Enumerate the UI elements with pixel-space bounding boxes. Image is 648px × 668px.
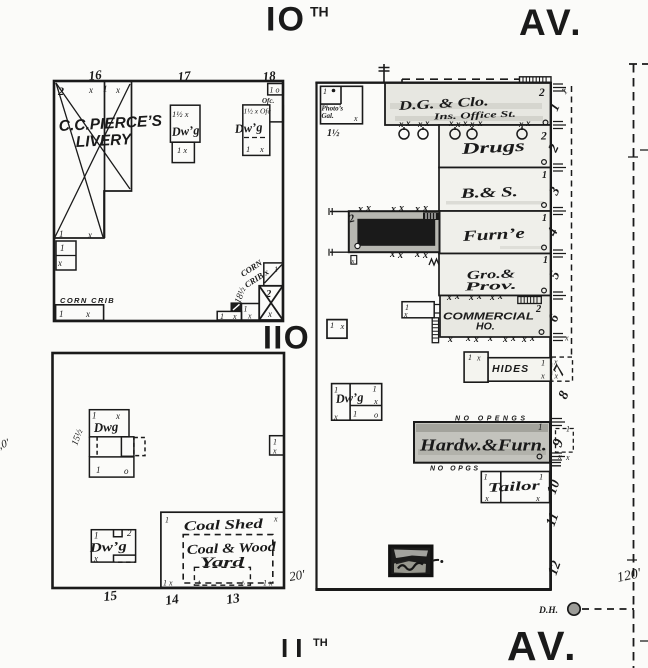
svg-text:x: x bbox=[389, 249, 395, 260]
dwelling lower lower-left block bbox=[91, 530, 135, 562]
corn crib upper box right bbox=[264, 263, 283, 286]
svg-text:HIDES: HIDES bbox=[492, 363, 529, 375]
svg-text:AV.: AV. bbox=[507, 623, 579, 668]
hides dashed extension lot 7 bbox=[552, 357, 573, 381]
coal shed bbox=[161, 512, 284, 587]
svg-text:x: x bbox=[462, 118, 468, 128]
svg-text:1: 1 bbox=[542, 213, 547, 224]
svg-text:o: o bbox=[124, 466, 129, 476]
svg-text:x: x bbox=[484, 493, 489, 503]
svg-text:IO: IO bbox=[266, 1, 306, 39]
city block right outline bbox=[315, 82, 551, 590]
svg-text:Dw’g: Dw’g bbox=[88, 538, 128, 555]
svg-text:1: 1 bbox=[484, 472, 488, 482]
svg-text:x: x bbox=[521, 335, 527, 345]
svg-text:x: x bbox=[272, 447, 277, 456]
svg-text:o: o bbox=[374, 410, 378, 420]
boots and shoes store bbox=[439, 168, 551, 212]
svg-text:x: x bbox=[468, 293, 474, 303]
drug store bbox=[439, 125, 551, 168]
svg-text:x: x bbox=[373, 396, 378, 406]
dwelling right block bbox=[332, 384, 382, 421]
svg-text:1: 1 bbox=[246, 144, 250, 154]
svg-text:1 x: 1 x bbox=[163, 579, 173, 588]
svg-text:1: 1 bbox=[59, 309, 64, 319]
svg-text:Tailor: Tailor bbox=[487, 477, 541, 495]
svg-text:x: x bbox=[353, 114, 358, 123]
svg-text:Gal.: Gal. bbox=[322, 112, 335, 120]
svg-text:Drugs: Drugs bbox=[460, 138, 525, 158]
svg-text:x: x bbox=[357, 204, 363, 215]
commercial house west annex bbox=[402, 302, 434, 318]
svg-text:1: 1 bbox=[542, 170, 547, 181]
svg-text:AV.: AV. bbox=[519, 2, 584, 43]
svg-text:20': 20' bbox=[288, 566, 306, 584]
zigzag mark warehouse corner bbox=[429, 259, 439, 265]
groceries and provisions store bbox=[439, 254, 551, 296]
tie lines west of warehouse bbox=[330, 212, 349, 253]
svg-text:Coal Shed: Coal Shed bbox=[184, 516, 264, 534]
svg-text:IIO: IIO bbox=[263, 320, 310, 356]
svg-text:1 x: 1 x bbox=[177, 145, 187, 155]
side stairway commercial house bbox=[432, 318, 438, 343]
dwelling lot 17 bbox=[170, 105, 200, 142]
svg-text:x: x bbox=[351, 258, 355, 265]
tailor shop bbox=[481, 472, 549, 503]
svg-text:2: 2 bbox=[57, 84, 64, 98]
svg-text:x: x bbox=[88, 85, 93, 95]
svg-text:x: x bbox=[473, 335, 479, 345]
svg-text:x: x bbox=[455, 119, 461, 129]
furniture store bbox=[439, 211, 551, 254]
svg-text:1: 1 bbox=[96, 465, 101, 475]
svg-text:x: x bbox=[397, 250, 403, 261]
svg-text:Hardw.&Furn.: Hardw.&Furn. bbox=[419, 436, 547, 455]
svg-text:1: 1 bbox=[468, 353, 472, 362]
svg-text:1: 1 bbox=[273, 438, 277, 447]
shed next to corn crib bbox=[242, 304, 260, 321]
window marks dry goods front bbox=[398, 118, 531, 129]
svg-text:x: x bbox=[448, 118, 454, 128]
blacksmith shop black building bbox=[390, 546, 432, 576]
svg-text:HO.: HO. bbox=[476, 321, 495, 333]
svg-text:Dwg: Dwg bbox=[92, 419, 119, 435]
inner dashed pen coal yard bbox=[194, 567, 250, 585]
svg-text:1: 1 bbox=[353, 409, 357, 419]
svg-text:1 x: 1 x bbox=[263, 579, 273, 588]
livery stable building with X bracing bbox=[54, 81, 132, 238]
svg-text:1: 1 bbox=[566, 425, 570, 434]
svg-text:2: 2 bbox=[127, 528, 132, 538]
svg-text:TH: TH bbox=[313, 637, 328, 649]
street boundary dashed corner top right bbox=[629, 63, 648, 65]
svg-text:1: 1 bbox=[274, 265, 278, 274]
svg-text:x: x bbox=[405, 118, 411, 128]
svg-text:Prov.: Prov. bbox=[465, 278, 517, 294]
warehouse black building bbox=[349, 211, 440, 252]
svg-text:13: 13 bbox=[225, 590, 241, 607]
svg-text:1: 1 bbox=[373, 384, 377, 394]
svg-text:Ofc.: Ofc. bbox=[262, 97, 274, 105]
dry goods and clothing store bbox=[385, 83, 551, 125]
svg-text:x: x bbox=[87, 230, 92, 240]
firewall hash marks east edge bbox=[552, 84, 566, 466]
svg-text:II: II bbox=[281, 633, 309, 663]
shed south of livery bbox=[56, 241, 76, 270]
utility pole symbol bbox=[379, 64, 390, 82]
svg-text:Dw’g: Dw’g bbox=[334, 390, 364, 406]
svg-text:x: x bbox=[529, 334, 535, 344]
svg-text:x: x bbox=[535, 493, 540, 503]
svg-text:1½ x Ofc: 1½ x Ofc bbox=[244, 107, 272, 116]
svg-text:1: 1 bbox=[543, 255, 548, 266]
low shed bottom right bbox=[217, 311, 241, 320]
svg-text:x: x bbox=[340, 321, 345, 331]
svg-text:x: x bbox=[540, 371, 545, 381]
svg-text:x: x bbox=[247, 312, 252, 321]
svg-text:x: x bbox=[390, 204, 396, 215]
svg-text:x: x bbox=[446, 293, 452, 303]
svg-text:17: 17 bbox=[177, 68, 192, 84]
svg-text:x: x bbox=[424, 118, 430, 128]
corn crib building left bbox=[56, 305, 104, 321]
svg-text:1: 1 bbox=[244, 305, 248, 314]
svg-text:2: 2 bbox=[540, 131, 547, 143]
svg-text:x: x bbox=[57, 258, 62, 268]
svg-text:x: x bbox=[565, 453, 570, 462]
corn crib X building right bbox=[259, 286, 283, 320]
svg-text:x: x bbox=[398, 203, 404, 214]
svg-text:1½ x: 1½ x bbox=[172, 109, 189, 119]
svg-text:x: x bbox=[510, 334, 516, 344]
svg-text:NO OPGS: NO OPGS bbox=[430, 466, 480, 473]
svg-text:x: x bbox=[273, 515, 278, 524]
story and opening marks east stores bbox=[542, 170, 548, 266]
svg-text:2: 2 bbox=[538, 87, 545, 99]
svg-text:x: x bbox=[365, 203, 371, 214]
svg-text:2: 2 bbox=[265, 289, 272, 300]
svg-text:1: 1 bbox=[539, 472, 543, 482]
svg-text:x: x bbox=[417, 119, 423, 129]
coal and wood yard dashed enclosure bbox=[183, 535, 273, 583]
hides warehouse bbox=[464, 352, 550, 382]
svg-text:x: x bbox=[267, 309, 272, 319]
svg-text:x: x bbox=[497, 292, 503, 302]
svg-text:1: 1 bbox=[59, 229, 64, 239]
lot boundary dashed line east of block bbox=[571, 86, 573, 356]
tick marks on right street boundary bbox=[627, 150, 648, 641]
svg-text:1: 1 bbox=[197, 579, 201, 588]
svg-text:18: 18 bbox=[262, 68, 277, 84]
small black shed bbox=[231, 303, 242, 312]
svg-text:Dw’g: Dw’g bbox=[170, 123, 200, 139]
svg-text:B.& S.: B.& S. bbox=[459, 185, 518, 202]
svg-text:x: x bbox=[564, 334, 569, 343]
svg-text:x: x bbox=[414, 204, 420, 215]
svg-text:CORN CRIB: CORN CRIB bbox=[60, 296, 115, 305]
svg-text:x: x bbox=[414, 249, 420, 260]
svg-text:x: x bbox=[518, 119, 524, 129]
awning dashed line over sidewalk bbox=[402, 79, 519, 82]
svg-text:1: 1 bbox=[165, 516, 169, 525]
svg-text:x: x bbox=[333, 412, 338, 422]
svg-text:x: x bbox=[476, 292, 482, 302]
window marks warehouse bbox=[357, 203, 428, 261]
small shed south of warehouse bbox=[351, 256, 357, 265]
svg-text:x: x bbox=[454, 292, 460, 302]
svg-text:2: 2 bbox=[535, 304, 542, 315]
hardware and furniture store bbox=[414, 422, 550, 463]
city block lower-left outline bbox=[53, 353, 285, 588]
svg-text:1: 1 bbox=[220, 312, 224, 321]
svg-text:x: x bbox=[85, 309, 90, 319]
svg-text:LIVERY: LIVERY bbox=[75, 131, 133, 151]
commercial house hotel bbox=[440, 296, 551, 338]
svg-text:1: 1 bbox=[60, 243, 65, 253]
porch with posts top right bbox=[520, 77, 552, 84]
svg-text:x: x bbox=[447, 335, 453, 345]
svg-text:1 o: 1 o bbox=[270, 86, 280, 95]
svg-text:D.H.: D.H. bbox=[538, 606, 558, 616]
svg-text:1: 1 bbox=[538, 422, 543, 432]
svg-text:x: x bbox=[525, 118, 531, 128]
svg-text:x: x bbox=[489, 293, 495, 303]
svg-text:x: x bbox=[232, 312, 237, 321]
svg-text:1½: 1½ bbox=[327, 128, 340, 139]
svg-text:x: x bbox=[422, 203, 428, 214]
svg-text:x: x bbox=[403, 310, 408, 319]
window marks commercial house top wall bbox=[446, 292, 503, 303]
svg-text:x: x bbox=[398, 119, 404, 129]
svg-text:x: x bbox=[465, 334, 471, 344]
window marks commercial house bottom wall bbox=[447, 334, 535, 345]
small shed east edge lower-left block bbox=[270, 436, 284, 455]
svg-text:1: 1 bbox=[541, 358, 545, 368]
stairway commercial house bbox=[518, 297, 542, 304]
svg-text:x: x bbox=[259, 144, 264, 154]
svg-text:x: x bbox=[477, 118, 483, 128]
lot 9 dashed box bbox=[556, 429, 574, 453]
svg-text:1: 1 bbox=[330, 320, 334, 330]
svg-text:Furn’e: Furn’e bbox=[461, 226, 526, 245]
photograph gallery building bbox=[321, 86, 363, 124]
city block upper-left outline bbox=[54, 81, 283, 321]
svg-text:x: x bbox=[422, 250, 428, 261]
svg-text:x: x bbox=[487, 334, 493, 344]
svg-text:1: 1 bbox=[103, 84, 108, 94]
dwelling lot 18 bbox=[243, 105, 270, 155]
svg-text:TH: TH bbox=[310, 4, 329, 20]
svg-text:x: x bbox=[93, 554, 98, 564]
svg-text:x: x bbox=[115, 85, 120, 95]
storefront post circles bbox=[399, 127, 527, 139]
street boundary dashed line right edge bbox=[633, 64, 635, 668]
svg-text:Dw’g: Dw’g bbox=[233, 120, 263, 136]
svg-text:1: 1 bbox=[323, 87, 327, 96]
standalone shed middle of block bbox=[327, 320, 347, 339]
svg-text:14: 14 bbox=[164, 591, 180, 608]
svg-text:15: 15 bbox=[103, 588, 118, 604]
svg-text:x: x bbox=[476, 354, 481, 363]
svg-text:x: x bbox=[502, 335, 508, 345]
dwelling upper lower-left block bbox=[89, 410, 145, 477]
dwelling lot 18 corner office bbox=[268, 84, 284, 95]
